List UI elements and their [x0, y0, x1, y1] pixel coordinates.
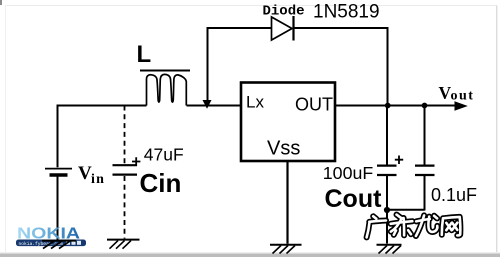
label Diode — [263, 4, 305, 20]
capacitor Cin dashed feed — [124, 106, 126, 164]
svg-text:in: in — [91, 172, 105, 187]
label 0.1uF — [431, 185, 477, 205]
logo NOKIA — [16, 226, 86, 247]
IC U1 — [241, 83, 335, 162]
svg-text:OUT: OUT — [295, 95, 333, 115]
svg-text:Cin: Cin — [140, 168, 182, 198]
svg-text:Diode: Diode — [263, 4, 305, 20]
svg-text:0.1uF: 0.1uF — [431, 185, 477, 205]
wire: node to Cout — [386, 106, 388, 165]
wire: diode cathode to output node — [294, 28, 388, 103]
wire: OUT pin to Vout — [336, 105, 456, 107]
label Cin — [140, 168, 182, 198]
label L — [137, 41, 152, 68]
label + (Cout) — [395, 156, 403, 165]
wire: node to 0.1uF cap — [424, 106, 426, 165]
label 1N5819 — [313, 2, 380, 23]
capacitor Cout — [377, 166, 397, 175]
wire: bottom link between caps — [387, 209, 425, 211]
svg-text:Vss: Vss — [267, 138, 300, 160]
ground (Vss) — [270, 245, 302, 254]
label 100uF — [323, 163, 374, 183]
label 47uF — [144, 144, 184, 164]
wire: switch-node branch up to diode — [208, 28, 272, 102]
pin OUT — [295, 95, 333, 115]
node: second junction — [422, 103, 428, 109]
svg-text:Lx: Lx — [246, 93, 264, 112]
capacitor C2 0.1uF — [415, 166, 435, 175]
label + (Cin) — [132, 157, 140, 166]
wire: Vss pin to ground — [286, 162, 288, 244]
wire: Cout to ground — [386, 176, 388, 244]
svg-text:100uF: 100uF — [323, 163, 374, 183]
svg-text:Cout: Cout — [325, 185, 383, 213]
battery Vin — [45, 169, 72, 175]
svg-text:47uF: 47uF — [144, 144, 184, 164]
wire: battery positive lead — [57, 105, 59, 168]
wire: battery negative lead — [57, 177, 59, 241]
pin Vss — [267, 138, 300, 160]
label Vout arrow — [455, 101, 468, 111]
svg-text:out: out — [451, 89, 475, 104]
ground (Cout) — [377, 245, 402, 254]
label Vout — [439, 83, 475, 104]
ground (battery) — [42, 241, 76, 249]
svg-text:1N5819: 1N5819 — [313, 2, 380, 23]
wire: 0.1uF to bottom link — [424, 176, 426, 211]
capacitor Cin — [113, 165, 138, 174]
node: output junction — [385, 103, 391, 109]
node: arrow junction at switch node — [203, 100, 212, 109]
label Cout — [325, 185, 383, 213]
label Vin — [78, 163, 105, 187]
wire: inductor to IC Lx pin — [187, 105, 241, 107]
inductor L — [140, 71, 190, 106]
watermark 广东龙网 — [367, 215, 461, 238]
node: cap bottoms junction — [384, 207, 390, 213]
svg-text:L: L — [137, 41, 152, 68]
wire: Cin to ground (dashed) — [124, 176, 126, 239]
ground (Cin) — [107, 240, 140, 249]
pin Lx — [246, 93, 264, 112]
diode D1 — [272, 16, 294, 41]
wire: battery top to inductor — [58, 105, 147, 107]
svg-text:V: V — [78, 163, 92, 184]
